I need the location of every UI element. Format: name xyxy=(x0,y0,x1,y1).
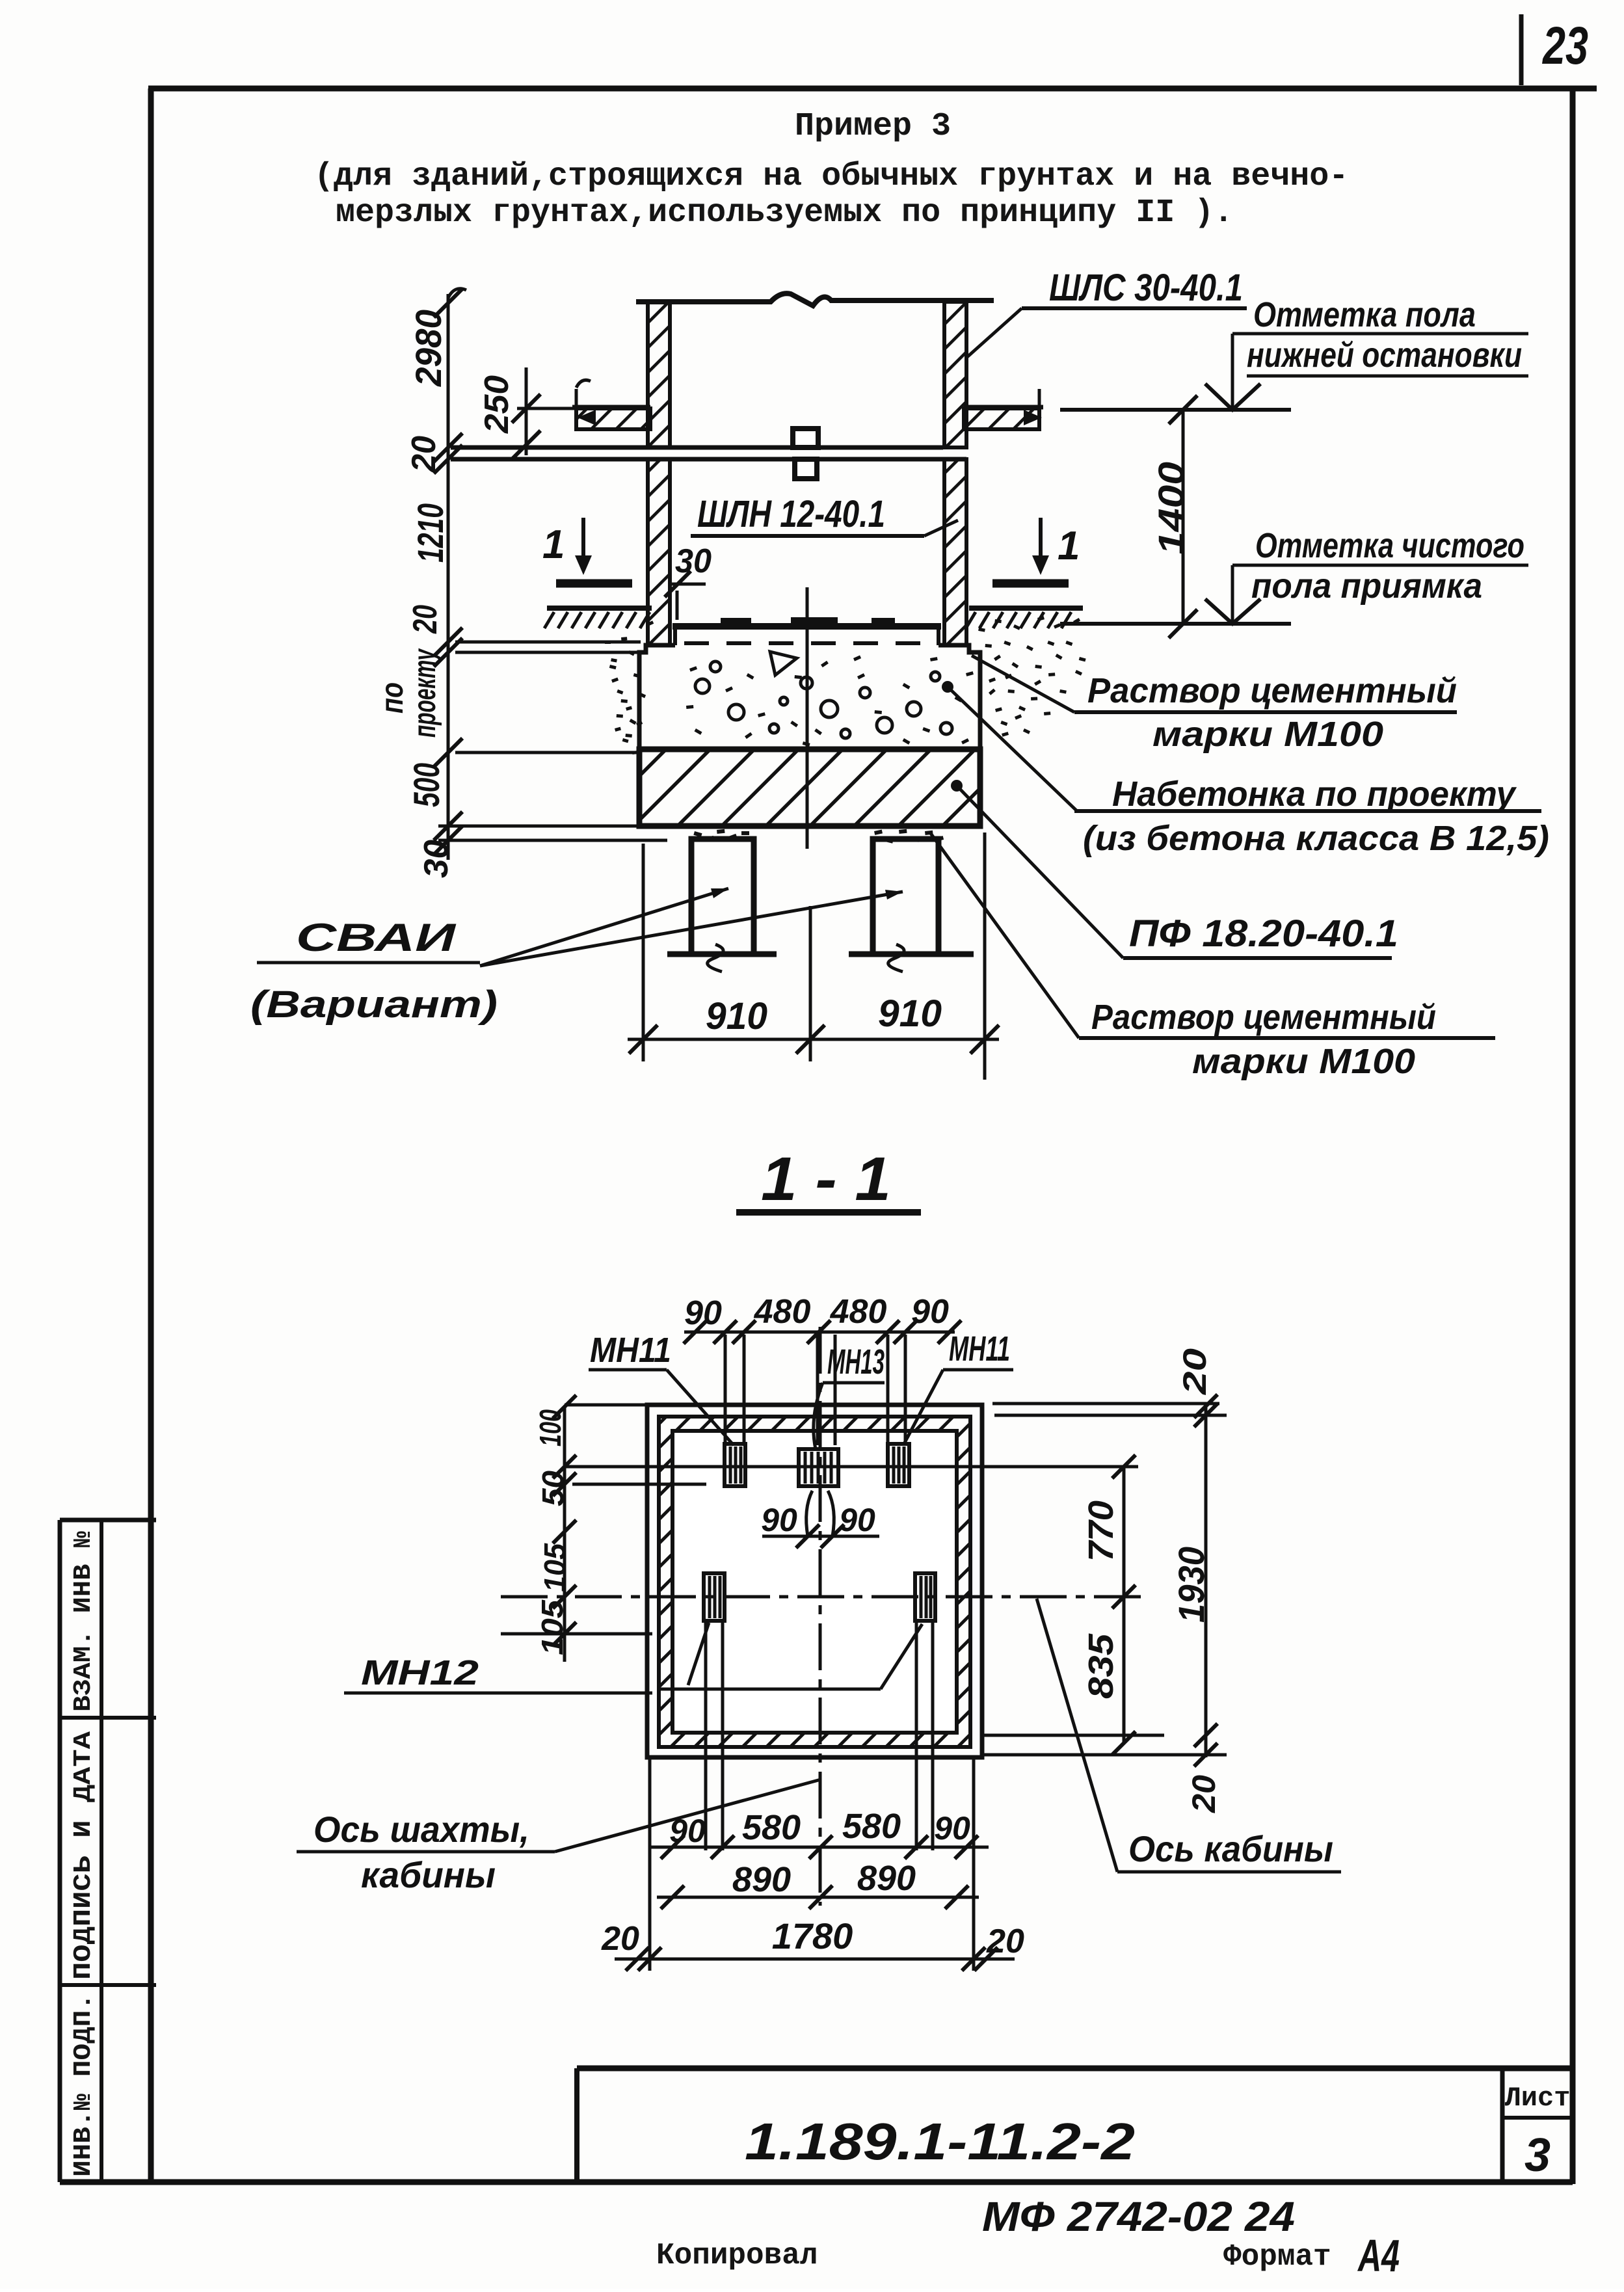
top right extension lines xyxy=(992,1402,1219,1406)
dim line 20 1780 20 xyxy=(615,1958,1015,1961)
svg-text:1.189.1-11.2-2: 1.189.1-11.2-2 xyxy=(745,2112,1135,2170)
soil speckles right xyxy=(978,628,985,632)
dim 250 sub-chain xyxy=(525,367,528,455)
svg-text:580: 580 xyxy=(742,1808,801,1847)
extension line y2512 xyxy=(501,1632,652,1636)
svg-text:105: 105 xyxy=(538,1543,572,1592)
svg-text:ИНВ.№ ПОДП.: ИНВ.№ ПОДП. xyxy=(70,1993,98,2177)
svg-text:480: 480 xyxy=(830,1293,887,1331)
svg-text:кабины: кабины xyxy=(361,1854,496,1895)
svg-text:90: 90 xyxy=(911,1293,949,1331)
plan centre axis vertical xyxy=(819,1327,822,1906)
top break cut line of shaft xyxy=(636,293,994,306)
svg-text:ШЛС 30-40.1: ШЛС 30-40.1 xyxy=(1049,267,1243,309)
svg-text:нижней остановки: нижней остановки xyxy=(1247,336,1522,375)
centering key upper xyxy=(793,429,818,447)
bolt extension lines bottom xyxy=(704,1621,708,1850)
title block box xyxy=(577,2066,1573,2072)
svg-text:МН11: МН11 xyxy=(949,1329,1010,1368)
mortar dabs on pit floor xyxy=(721,618,751,627)
bottom right extension lines xyxy=(983,1734,1164,1737)
svg-text:МН12: МН12 xyxy=(361,1653,479,1692)
svg-text:20: 20 xyxy=(406,605,444,634)
svg-text:Ось кабины: Ось кабины xyxy=(1128,1828,1333,1869)
soil speckles left xyxy=(621,637,627,641)
plan shaft wall band (hatched) xyxy=(659,1417,970,1747)
concrete speckle field (nабетонка layer) xyxy=(695,679,710,693)
svg-text:90: 90 xyxy=(761,1502,797,1538)
МН12 inner leader xyxy=(658,1688,881,1691)
svg-text:марки М100: марки М100 xyxy=(1192,1042,1415,1081)
svg-text:Ось шахты,: Ось шахты, xyxy=(313,1809,529,1850)
foundation outline with wall seats xyxy=(639,645,980,749)
svg-text:МФ 2742-02 24: МФ 2742-02 24 xyxy=(982,2193,1295,2240)
svg-text:(для зданий,строящихся на обыч: (для зданий,строящихся на обычных грунта… xyxy=(314,158,1348,195)
extension line y2282 xyxy=(572,1483,706,1486)
pile leaders xyxy=(480,888,728,966)
svg-text:пола приямка: пола приямка xyxy=(1251,566,1482,606)
ПФ foundation slab (hatched) xyxy=(639,749,980,826)
svg-text:3: 3 xyxy=(1524,2129,1551,2181)
right slab end tick xyxy=(1038,389,1041,421)
svg-text:Пример 3: Пример 3 xyxy=(795,108,951,145)
joint line top of ШЛН xyxy=(451,457,966,462)
svg-text:Раствор цементный: Раствор цементный xyxy=(1091,998,1436,1037)
svg-text:20: 20 xyxy=(1177,1348,1213,1396)
dim line 910+910 xyxy=(628,1038,999,1041)
svg-text:СВАИ: СВАИ xyxy=(296,916,457,959)
mortar speckles under slab xyxy=(693,831,702,837)
concrete triangle symbol xyxy=(770,652,797,675)
svg-text:1400: 1400 xyxy=(1151,462,1191,555)
svg-text:Отметка пола: Отметка пола xyxy=(1253,295,1476,334)
anchor row 1 centreline xyxy=(563,1465,1138,1469)
svg-text:1: 1 xyxy=(1058,524,1080,568)
svg-text:Отметка чистого: Отметка чистого xyxy=(1255,526,1524,565)
dim line 890 890 xyxy=(657,1896,979,1899)
mortar dashed line under walls xyxy=(684,641,937,645)
left slab end tick xyxy=(575,389,578,421)
dim line 90 580 580 90 xyxy=(650,1846,989,1849)
svg-text:1780: 1780 xyxy=(772,1915,853,1956)
svg-text:ПОДПИСЬ И ДАТА: ПОДПИСЬ И ДАТА xyxy=(70,1731,98,1980)
dim 1930 line xyxy=(1205,1404,1208,1757)
wall seat steps xyxy=(673,626,677,645)
svg-text:90: 90 xyxy=(684,1294,722,1332)
svg-text:мерзлых грунтах,используемых п: мерзлых грунтах,используемых по принципу… xyxy=(336,194,1233,232)
right floor slab (lower stop) xyxy=(964,405,1043,410)
svg-text:ВЗАМ. ИНВ №: ВЗАМ. ИНВ № xyxy=(70,1531,98,1712)
svg-text:500: 500 xyxy=(406,763,447,807)
svg-text:770: 770 xyxy=(1082,1500,1121,1562)
svg-text:А4: А4 xyxy=(1357,2230,1400,2281)
svg-text:1: 1 xyxy=(542,522,565,567)
svg-text:Копировал: Копировал xyxy=(656,2239,818,2272)
svg-text:105: 105 xyxy=(535,1599,569,1655)
corner extension lines bottom xyxy=(648,1759,652,1971)
plan cabin axis horizontal xyxy=(501,1595,1147,1599)
anchor МН13 top-middle xyxy=(799,1449,838,1486)
ground line right of pit xyxy=(969,606,1083,611)
joint line bottom of ШЛС xyxy=(451,446,943,450)
svg-text:90: 90 xyxy=(839,1502,875,1538)
svg-text:910: 910 xyxy=(706,995,767,1037)
svg-text:2980: 2980 xyxy=(408,310,449,387)
svg-text:проекту: проекту xyxy=(408,648,442,738)
svg-text:Формат: Формат xyxy=(1223,2240,1331,2274)
shaft wall ШЛС left (hatched) xyxy=(648,302,670,447)
level mark lower xyxy=(1231,565,1234,624)
svg-text:30: 30 xyxy=(418,840,455,878)
svg-text:250: 250 xyxy=(478,375,516,434)
svg-text:30: 30 xyxy=(675,542,712,580)
svg-text:20: 20 xyxy=(405,436,443,473)
dim 910 extension lines xyxy=(642,844,645,1061)
pile right ground break line xyxy=(849,952,974,957)
stamp column boxes xyxy=(58,1520,62,2182)
dim 1400 xyxy=(1182,410,1185,624)
centering key lower xyxy=(795,459,817,479)
svg-text:90: 90 xyxy=(934,1810,970,1846)
svg-text:1 - 1: 1 - 1 xyxy=(761,1145,891,1214)
page number tick xyxy=(1519,14,1524,85)
dim 90 90 inner xyxy=(762,1535,879,1538)
svg-text:МН13: МН13 xyxy=(827,1342,885,1381)
svg-text:МН11: МН11 xyxy=(590,1331,671,1370)
pile left xyxy=(691,839,754,954)
svg-text:Раствор цементный: Раствор цементный xyxy=(1087,671,1457,710)
anchor МН12 mid-left xyxy=(704,1573,725,1621)
svg-text:ПФ 18.20-40.1: ПФ 18.20-40.1 xyxy=(1129,913,1398,955)
extra soil speckles xyxy=(611,678,619,683)
svg-text:1930: 1930 xyxy=(1171,1547,1212,1623)
svg-text:890: 890 xyxy=(857,1859,916,1898)
svg-text:Лист: Лист xyxy=(1505,2083,1571,2114)
left floor slab (lower stop) xyxy=(572,405,650,410)
shaft wall ШЛН right (hatched) xyxy=(944,459,966,645)
shaft wall ШЛС right (hatched) xyxy=(944,302,966,447)
anchor МН11 top-right xyxy=(888,1444,909,1486)
left dimension chain xyxy=(447,294,450,860)
svg-text:835: 835 xyxy=(1082,1633,1121,1699)
plan inner face xyxy=(672,1431,957,1733)
svg-text:ШЛН 12-40.1: ШЛН 12-40.1 xyxy=(697,493,885,535)
top dim line 90 480 480 90 xyxy=(684,1331,955,1334)
svg-text:910: 910 xyxy=(878,993,942,1035)
anchor МН12 mid-right xyxy=(915,1573,935,1621)
svg-text:50: 50 xyxy=(536,1471,570,1506)
svg-text:(Вариант): (Вариант) xyxy=(250,983,498,1026)
svg-text:1210: 1210 xyxy=(410,503,451,563)
anchor МН11 top-left xyxy=(725,1444,745,1486)
chain extension lines xyxy=(455,641,641,644)
anchor bolt extension lines top xyxy=(724,1335,727,1445)
svg-text:(из бетона класса В 12,5): (из бетона класса В 12,5) xyxy=(1083,819,1549,858)
svg-text:100: 100 xyxy=(533,1409,567,1446)
svg-text:480: 480 xyxy=(754,1293,811,1331)
shaft wall ШЛН left (hatched) xyxy=(648,459,670,645)
ground line left of pit xyxy=(547,606,652,611)
plan outer contour xyxy=(647,1405,982,1757)
svg-text:20: 20 xyxy=(986,1923,1024,1960)
sheet border frame xyxy=(148,86,1597,92)
svg-text:890: 890 xyxy=(732,1860,791,1899)
svg-text:по: по xyxy=(375,682,410,713)
dim 770 835 line xyxy=(1123,1467,1126,1743)
pit floor line (top of foundation inside shaft) xyxy=(672,623,941,630)
level mark upper xyxy=(1231,334,1234,410)
svg-text:20: 20 xyxy=(1186,1775,1222,1813)
shaft centre axis xyxy=(806,587,809,849)
pile right xyxy=(873,839,938,954)
pile left ground break line xyxy=(667,952,777,957)
left chain of plan xyxy=(563,1407,566,1662)
svg-text:марки М100: марки М100 xyxy=(1152,715,1383,754)
svg-text:20: 20 xyxy=(601,1920,639,1958)
svg-text:Набетонка по проекту: Набетонка по проекту xyxy=(1112,775,1517,814)
svg-text:23: 23 xyxy=(1541,16,1588,75)
svg-text:580: 580 xyxy=(842,1807,901,1846)
